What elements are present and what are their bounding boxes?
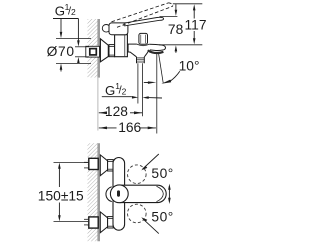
117 dimension line + arrows bbox=[193, 4, 196, 10]
upper 50deg leader line + arrowhead bbox=[143, 154, 159, 169]
upper escutcheon cone bbox=[100, 155, 107, 176]
faucet body block bbox=[115, 35, 128, 57]
G1/2 top leader arrowhead bbox=[60, 32, 63, 38]
O70 dimension bottom arrow bbox=[60, 63, 63, 69]
bottom extension line (spout outlet level) bbox=[159, 44, 202, 46]
upper union nut bbox=[89, 158, 98, 169]
wall hatching bottom view bbox=[88, 143, 98, 241]
fitting dimension line with arrows bbox=[77, 19, 79, 42]
wall face line bottom view bbox=[97, 143, 100, 241]
svg-text:10°: 10° bbox=[179, 58, 200, 73]
150+-15 dimension line + arrows bbox=[58, 163, 61, 169]
raised lever tip (dashed) bbox=[169, 3, 173, 6]
spout top edge bbox=[127, 43, 136, 45]
svg-text:2: 2 bbox=[122, 86, 127, 96]
lower 50deg leader line + arrowhead bbox=[143, 219, 159, 234]
shower outlet stub with rings bbox=[137, 57, 145, 64]
in-wall fitting outer rectangle bbox=[86, 46, 100, 57]
block-spout junction line bbox=[127, 44, 129, 52]
10 degree arc left arrow bbox=[144, 82, 149, 84]
lower union nut bbox=[89, 217, 98, 228]
wall face line top view bbox=[97, 19, 100, 78]
G1/2 top leader line bbox=[60, 19, 62, 34]
lower connector nut bbox=[108, 217, 114, 228]
svg-text:2: 2 bbox=[71, 7, 76, 17]
G1/2 top underline bbox=[53, 18, 78, 20]
150+-15 extension lines bbox=[54, 162, 89, 164]
knob base flange bbox=[137, 44, 149, 46]
cartridge cap circle bbox=[110, 185, 128, 203]
svg-text:150±15: 150±15 bbox=[38, 188, 84, 203]
lower supply pipe stub bbox=[84, 218, 89, 220]
10 degree slanted leg bbox=[159, 54, 164, 84]
spout tip bbox=[149, 44, 165, 50]
body bulge arc bbox=[106, 187, 112, 202]
166 dimension line bbox=[99, 127, 117, 129]
escutcheon cone bbox=[100, 39, 108, 62]
in-wall fitting inner square bbox=[90, 49, 97, 55]
handle grip inner line bbox=[157, 186, 164, 201]
78 top extension line bbox=[160, 15, 178, 17]
128 dimension line bbox=[99, 112, 106, 114]
wall hatching top view bbox=[88, 19, 98, 78]
117 top extension line bbox=[173, 3, 203, 5]
lever base dome bbox=[109, 23, 128, 35]
spout outlet slot (dark) bbox=[148, 50, 164, 53]
diverter knob bbox=[139, 33, 148, 44]
spout underside + outlet cone bbox=[127, 52, 136, 57]
svg-text:50°: 50° bbox=[151, 209, 173, 224]
10 degree leader curve + right arrow bbox=[170, 71, 180, 81]
svg-text:78: 78 bbox=[168, 22, 184, 37]
78 dimension line + arrows bbox=[175, 4, 177, 10]
O70 top extension line bbox=[56, 38, 91, 40]
fitting extension lines (small) bbox=[75, 46, 89, 48]
svg-text:G: G bbox=[55, 4, 65, 19]
lever handle raised (dashed) line 2 bbox=[117, 6, 173, 27]
svg-text:117: 117 bbox=[185, 17, 207, 32]
G1/2 outlet reference lines (twin) bbox=[137, 63, 139, 103]
G1/2 right arrow + tail bbox=[143, 96, 149, 99]
svg-text:166: 166 bbox=[118, 120, 141, 135]
10 degree vertical leg / 166 extension line bbox=[156, 54, 158, 134]
swing arc double arrow at handle tip bbox=[168, 186, 170, 202]
lever heel bbox=[102, 25, 110, 33]
cap slot (dark) bbox=[117, 190, 120, 196]
handle rotated -50deg (dashed circle) bbox=[128, 204, 147, 223]
lever handle raised (dashed) line 1 bbox=[112, 3, 169, 22]
handle rotated +50deg (dashed circle) bbox=[128, 165, 147, 184]
G1/2 bottom leader arrowhead bbox=[132, 96, 138, 99]
svg-text:50°: 50° bbox=[151, 166, 173, 181]
lever handle blade (solid position) bbox=[124, 17, 164, 26]
upper connector nut bbox=[108, 160, 114, 171]
svg-text:G: G bbox=[105, 83, 115, 98]
O70 bottom extension line bbox=[56, 62, 91, 64]
wall reference extension line (gray, below wall) bbox=[97, 78, 99, 131]
G1/2 bottom underline bbox=[102, 96, 132, 98]
upper supply pipe stub bbox=[84, 161, 89, 163]
union nut connector bbox=[109, 45, 115, 57]
handle (horizontal stadium) bbox=[112, 185, 166, 202]
lower escutcheon cone bbox=[100, 212, 107, 233]
svg-text:128: 128 bbox=[105, 104, 128, 119]
body tube (vertical stadium) bbox=[113, 158, 125, 231]
svg-text:Ø70: Ø70 bbox=[47, 44, 75, 59]
